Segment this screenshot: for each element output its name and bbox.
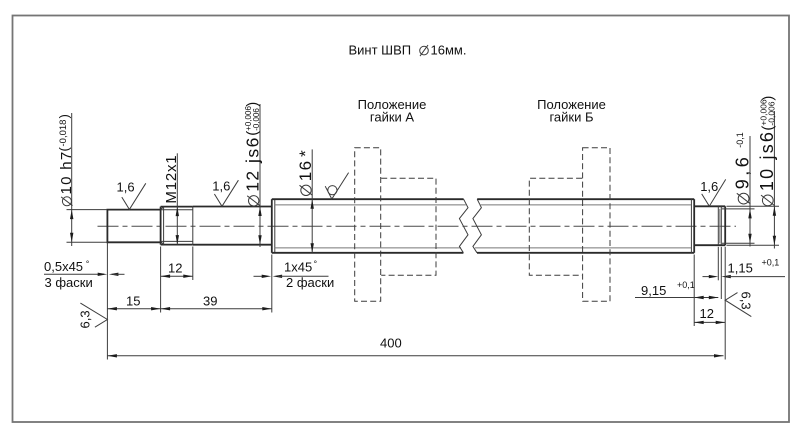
svg-text:12 js6: 12 js6 bbox=[243, 136, 263, 192]
svg-text:°: ° bbox=[314, 259, 318, 269]
dim 9,15 +0,1 bbox=[635, 255, 718, 327]
dimension Ø10 h7 (-0,018) bbox=[57, 113, 108, 246]
roughness 6,3 at right end face bbox=[725, 292, 753, 317]
svg-text:12: 12 bbox=[168, 260, 182, 275]
svg-text:-0,006: -0,006 bbox=[766, 101, 776, 125]
svg-text:1,15: 1,15 bbox=[728, 261, 753, 276]
dimension Ø12 js6 (+0,006/-0,006) bbox=[243, 102, 263, 247]
dimension Ø10 js6 (+0,006/-0,006) right bbox=[727, 96, 780, 249]
chamfer dim 1x45° / 2 фаски bbox=[254, 259, 335, 290]
dim 15 bbox=[107, 242, 160, 359]
svg-text:): ) bbox=[759, 96, 776, 101]
dimension Ø9,6 -0,1 bbox=[722, 132, 755, 246]
svg-text:+0,1: +0,1 bbox=[762, 258, 780, 268]
svg-text:3 фаски: 3 фаски bbox=[45, 275, 93, 290]
svg-text:10 h7: 10 h7 bbox=[58, 150, 75, 194]
svg-text:-0,1: -0,1 bbox=[735, 132, 745, 148]
roughness 1,6 on Ø10 bbox=[117, 180, 146, 210]
title: Винт ШВП Ø16мм. bbox=[349, 43, 467, 58]
svg-text:9,15: 9,15 bbox=[641, 283, 666, 298]
svg-text:15: 15 bbox=[126, 294, 140, 309]
svg-text:Винт ШВП: Винт ШВП bbox=[349, 43, 412, 58]
nut A body (dashed) bbox=[381, 178, 436, 275]
svg-text:0,5x45: 0,5x45 bbox=[44, 259, 83, 274]
chamfer dim 0,5x45° / 3 фаски bbox=[44, 259, 125, 290]
svg-text:-0,018: -0,018 bbox=[58, 120, 69, 147]
roughness 1,6 on Ø12 bbox=[212, 179, 238, 207]
dimension M12x1 bbox=[163, 153, 180, 244]
svg-text:°: ° bbox=[86, 259, 90, 269]
shaft segment M12x1 thread bbox=[161, 207, 193, 245]
dim 400 overall bbox=[107, 336, 723, 358]
svg-text:-0,006: -0,006 bbox=[252, 108, 261, 131]
svg-text:16мм.: 16мм. bbox=[431, 43, 467, 58]
svg-text:16*: 16* bbox=[296, 149, 315, 182]
svg-text:1x45: 1x45 bbox=[284, 260, 312, 275]
svg-text:10 js6: 10 js6 bbox=[757, 130, 777, 191]
Ø16 screw body, right part after break bbox=[475, 199, 694, 253]
svg-text:1,6: 1,6 bbox=[700, 179, 718, 194]
roughness symbol with circle on Ø16 bbox=[325, 173, 348, 199]
Ø16 screw body, left part up to break bbox=[272, 199, 466, 253]
dim 12 (M12 length) bbox=[161, 247, 193, 313]
svg-text:гайки А: гайки А bbox=[370, 110, 415, 125]
svg-text:39: 39 bbox=[203, 294, 217, 309]
svg-text:): ) bbox=[244, 102, 261, 107]
svg-text:9,6: 9,6 bbox=[733, 154, 753, 190]
nut A flange (dashed) bbox=[355, 148, 381, 301]
svg-text:+0,1: +0,1 bbox=[677, 280, 695, 290]
svg-text:гайки Б: гайки Б bbox=[549, 110, 593, 125]
svg-text:): ) bbox=[57, 114, 72, 118]
svg-text:M12x1: M12x1 bbox=[163, 155, 180, 204]
break symbol (zigzag) bbox=[459, 199, 481, 253]
right journal Ø10 js6 with circlip groove bbox=[694, 206, 725, 245]
svg-text:400: 400 bbox=[380, 336, 402, 351]
dim 39 bbox=[161, 255, 272, 313]
dimension Ø16* bbox=[296, 149, 315, 253]
shaft segment Ø12 js6 bbox=[193, 207, 272, 245]
centerline of shaft bbox=[98, 225, 737, 227]
shaft segment Ø10 h7 journal (left) bbox=[107, 210, 162, 243]
svg-text:1,6: 1,6 bbox=[117, 180, 135, 195]
dim 12 (right journal length) bbox=[694, 247, 725, 360]
svg-text:12: 12 bbox=[700, 306, 714, 321]
svg-text:6,3: 6,3 bbox=[739, 292, 754, 310]
nut B body (dashed) bbox=[529, 178, 582, 275]
svg-text:1,6: 1,6 bbox=[212, 179, 230, 194]
svg-text:6,3: 6,3 bbox=[78, 310, 93, 328]
svg-text:2 фаски: 2 фаски bbox=[286, 275, 334, 290]
dim 1,15 +0,1 bbox=[703, 247, 786, 299]
nut B flange (dashed) bbox=[583, 148, 610, 301]
roughness 1,6 on right journal bbox=[700, 179, 726, 206]
roughness 6,3 at left end face bbox=[78, 303, 108, 328]
